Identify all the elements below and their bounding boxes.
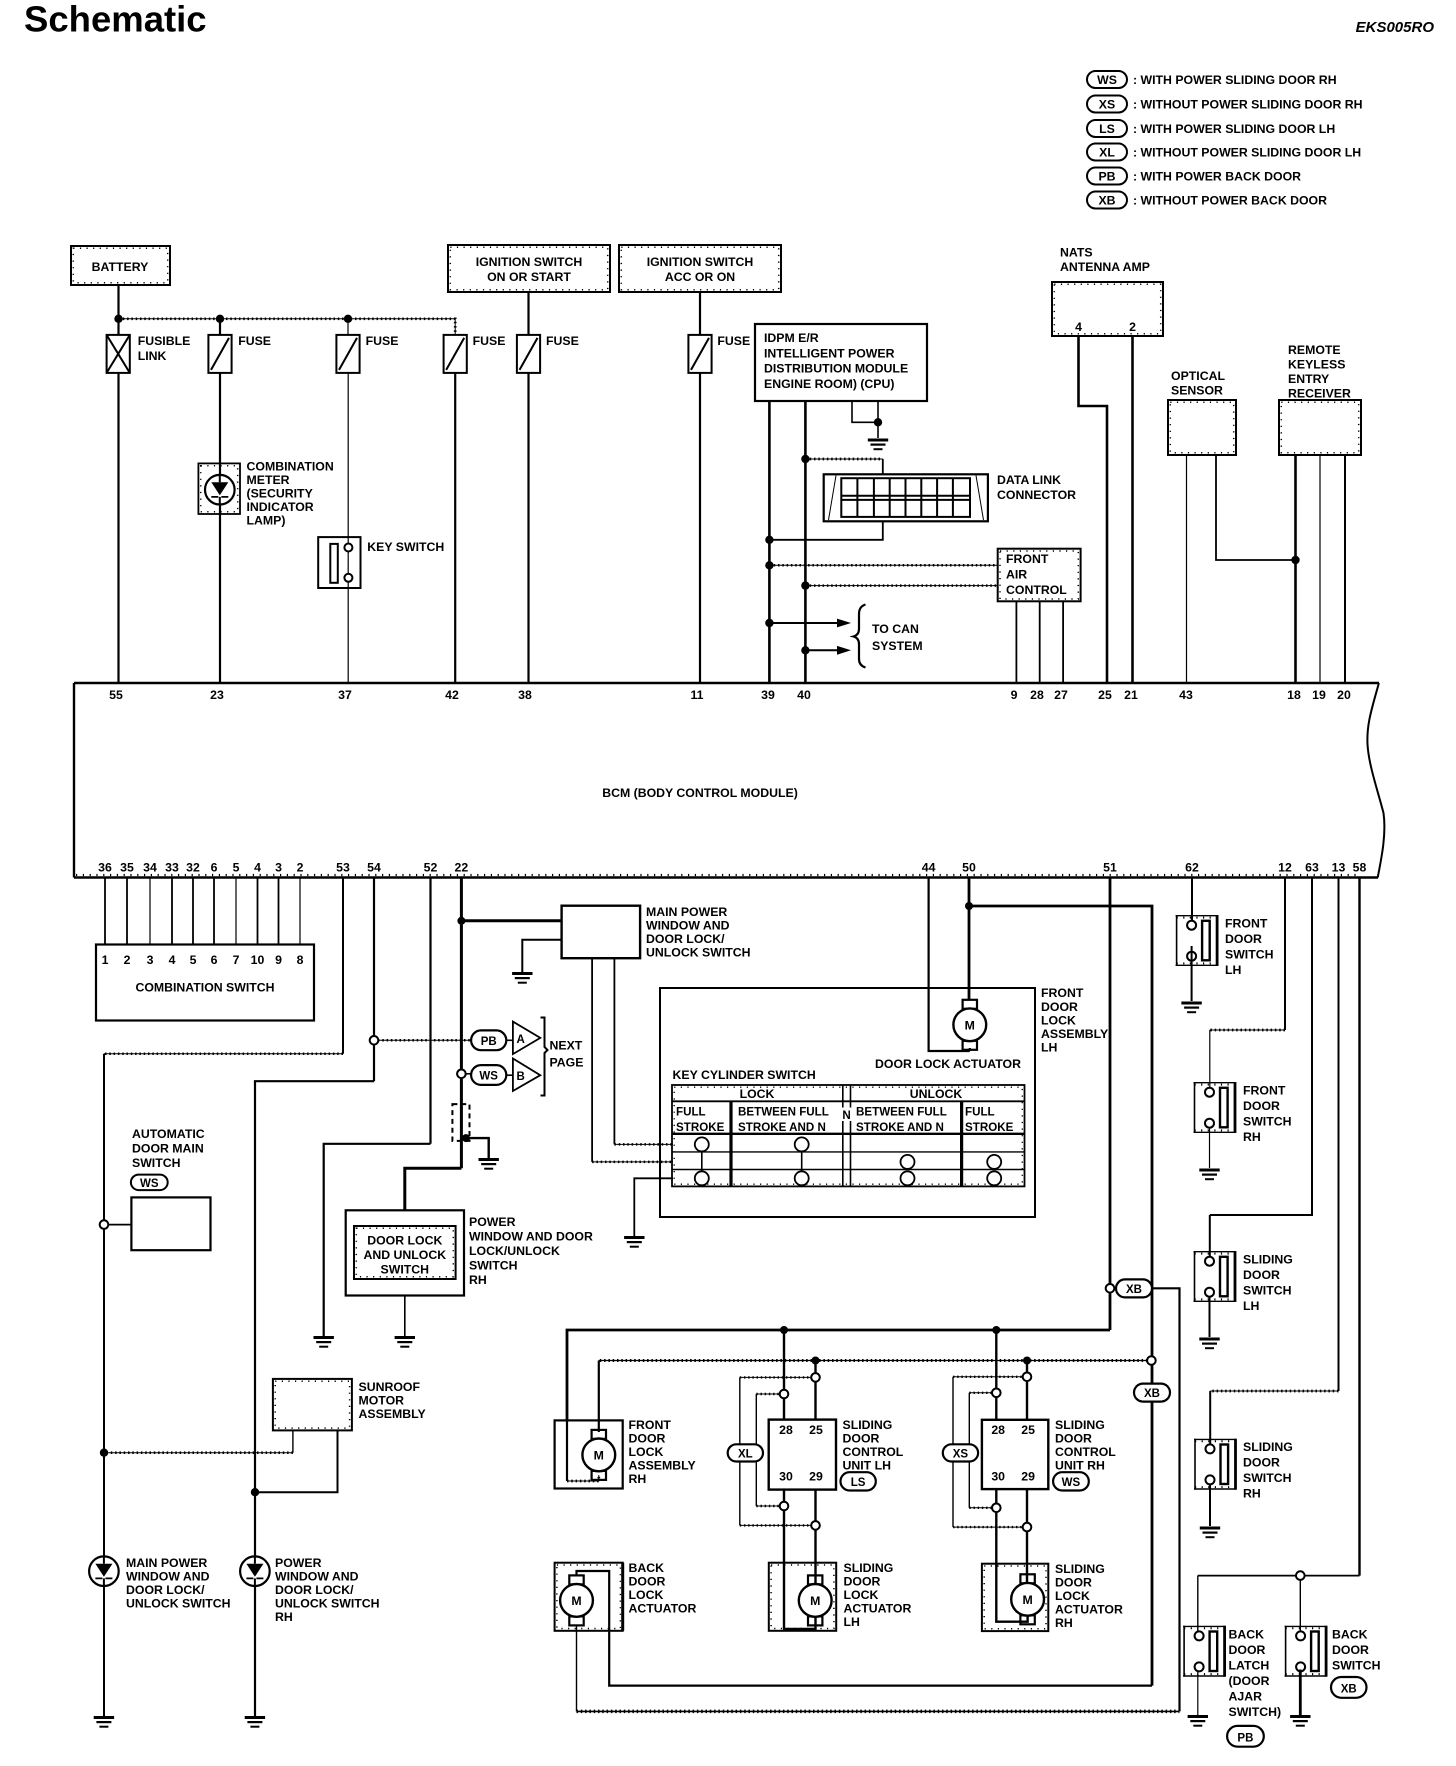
junction sunroof on wire54 [251, 1488, 259, 1496]
svg-text:UNLOCK SWITCH: UNLOCK SWITCH [275, 1597, 380, 1611]
svg-text:LOCK: LOCK [629, 1445, 664, 1459]
wire ign2 to fuse [699, 292, 701, 335]
ground SDS LH [1199, 1339, 1219, 1348]
svg-text:36: 36 [98, 861, 112, 875]
wire key cyl row C to ground [634, 1178, 673, 1236]
NATS antenna amp box [1052, 282, 1163, 336]
front door lock assembly RH box [555, 1420, 623, 1488]
svg-text:WINDOW AND: WINDOW AND [275, 1570, 359, 1584]
wire 22 jog to door lock switch [405, 1168, 462, 1210]
wire pin63 [1210, 878, 1312, 1216]
svg-text:11: 11 [691, 688, 704, 702]
svg-text:UNLOCK SWITCH: UNLOCK SWITCH [646, 946, 751, 960]
svg-text:: WITH POWER SLIDING DOOR RH: : WITH POWER SLIDING DOOR RH [1133, 73, 1337, 87]
svg-text:30: 30 [779, 1470, 793, 1484]
svg-text:FUSE: FUSE [546, 334, 579, 348]
svg-text:SWITCH: SWITCH [381, 1263, 430, 1277]
wire CAN arrow 2 [805, 646, 851, 655]
wire drop to SDS LH [1209, 1215, 1211, 1257]
next page bracket [541, 1018, 548, 1096]
wire inside FDLA RH to motor bottom [566, 1420, 568, 1481]
svg-text:(DOOR: (DOOR [1229, 1674, 1270, 1688]
svg-text:DOOR: DOOR [1055, 1576, 1092, 1590]
svg-text:XB: XB [1098, 194, 1115, 208]
svg-text:28: 28 [779, 1423, 793, 1437]
svg-text:SLIDING: SLIDING [843, 1418, 893, 1432]
sliding door control unit LH box [769, 1420, 836, 1490]
connector circle WS tap on wire22 [457, 1070, 466, 1079]
svg-text:4: 4 [1075, 320, 1082, 334]
svg-text:ON OR START: ON OR START [487, 270, 571, 284]
wire pin37 [347, 373, 349, 683]
front door switch RH [1194, 1082, 1236, 1133]
ground LED1 [94, 1718, 114, 1727]
wire 52 jog left to ground [324, 1144, 431, 1336]
wire pin55 [117, 373, 119, 683]
legend LS [1087, 120, 1335, 137]
svg-text:63: 63 [1305, 861, 1319, 875]
svg-text:29: 29 [809, 1470, 823, 1484]
wire back door latch to ground [1197, 1671, 1199, 1715]
ground back door latch [1188, 1717, 1208, 1726]
svg-text:STROKE AND N: STROKE AND N [738, 1121, 826, 1134]
wire pin12 jog (dotted) [1210, 1029, 1285, 1031]
wire pin62 [1191, 878, 1193, 922]
svg-text:SYSTEM: SYSTEM [872, 639, 923, 653]
svg-text:9: 9 [275, 953, 282, 967]
combination meter security lamp LED [205, 475, 235, 505]
svg-text:ENTRY: ENTRY [1288, 372, 1329, 386]
svg-text:XL: XL [738, 1449, 753, 1461]
svg-text:ACC OR ON: ACC OR ON [665, 270, 735, 284]
svg-text:WS: WS [1062, 1477, 1081, 1489]
ground wire52 [314, 1338, 334, 1347]
connector circle pin30 [780, 1502, 789, 1511]
XL bypass inner loop [756, 1394, 780, 1506]
WS oval (automatic door main switch) [131, 1175, 168, 1191]
remote keyless entry receiver box [1279, 400, 1361, 455]
junction wire22 ground tap [462, 1134, 470, 1142]
svg-text:WINDOW AND: WINDOW AND [126, 1570, 210, 1584]
svg-text:NATS: NATS [1060, 246, 1093, 260]
BCM bottom pin numbers [98, 861, 1366, 875]
svg-text:LOCK: LOCK [1055, 1589, 1090, 1603]
svg-text:OPTICAL: OPTICAL [1171, 369, 1225, 383]
svg-text:WS: WS [479, 1071, 498, 1083]
SDCU LH pin28 wire [783, 1330, 785, 1420]
svg-text:2: 2 [297, 861, 304, 875]
junction pin50 branch [965, 902, 973, 910]
key switch box [318, 537, 360, 588]
junction DLC bottom on pin39 [765, 536, 773, 544]
wire pin38 [527, 373, 529, 683]
table contacts lock between [795, 1137, 809, 1185]
wire back door actuator bottom horizontal (dotted) [577, 1710, 1180, 1712]
wire bus stub to fusible link [117, 319, 119, 335]
svg-text:DOOR MAIN: DOOR MAIN [132, 1142, 204, 1156]
junction CAN2 on pin40 [801, 646, 809, 654]
wire sunroof left link (dotted) [104, 1452, 293, 1454]
table contacts unlock between [901, 1155, 915, 1185]
svg-text:POWER: POWER [275, 1556, 322, 1570]
svg-text:12: 12 [1278, 861, 1292, 875]
svg-text:1: 1 [102, 953, 109, 967]
svg-text:DOOR: DOOR [844, 1575, 881, 1589]
svg-text:DOOR: DOOR [1229, 1643, 1266, 1657]
ground LED2 [245, 1718, 265, 1727]
svg-text:COMBINATION SWITCH: COMBINATION SWITCH [135, 981, 274, 995]
svg-text:DOOR: DOOR [629, 1575, 666, 1589]
wire FDS RH to ground [1209, 1128, 1211, 1168]
svg-text:AJAR: AJAR [1229, 1690, 1263, 1704]
svg-text:XL: XL [1099, 146, 1115, 160]
wire SDS RH to ground [1209, 1485, 1211, 1526]
SDCU RH pin29 wire [1026, 1489, 1028, 1583]
wire pin42 [454, 373, 456, 683]
svg-text:FUSIBLE: FUSIBLE [138, 334, 191, 348]
front air control box [998, 549, 1081, 602]
svg-text:DOOR: DOOR [629, 1432, 666, 1446]
svg-text:35: 35 [120, 861, 134, 875]
svg-text:38: 38 [518, 688, 532, 702]
dashed shield box on wire22 [452, 1104, 469, 1141]
svg-text:FULL: FULL [965, 1106, 995, 1119]
combination switch box [96, 945, 314, 1021]
wire bus stub to fuse 37 [347, 319, 349, 335]
svg-text:RH: RH [1243, 1487, 1261, 1501]
svg-text:POWER: POWER [469, 1215, 516, 1229]
svg-text:52: 52 [424, 861, 438, 875]
svg-text:BATTERY: BATTERY [92, 260, 149, 274]
svg-text:INDICATOR: INDICATOR [247, 500, 314, 514]
SDCU RH pin25 wire [1026, 1361, 1028, 1420]
svg-text:DOOR: DOOR [1055, 1432, 1092, 1446]
svg-text:IDPM E/R: IDPM E/R [764, 331, 819, 345]
svg-text:FUSE: FUSE [366, 334, 399, 348]
fusible link [107, 335, 130, 373]
legend XL [1087, 144, 1361, 161]
wire main power switch pin left to key cyl row B [591, 958, 593, 1162]
svg-text:B: B [517, 1071, 525, 1083]
wire pin52 down [429, 878, 431, 1144]
front door lock assembly LH box [660, 988, 1035, 1217]
svg-text:SENSOR: SENSOR [1171, 384, 1223, 398]
wire CAN arrow 1 [769, 619, 851, 628]
svg-text:FRONT: FRONT [1041, 986, 1084, 1000]
svg-text:13: 13 [1332, 861, 1346, 875]
svg-text:TO CAN: TO CAN [872, 622, 919, 636]
fuse (pin 37) [336, 335, 359, 373]
svg-text:: WITH POWER BACK DOOR: : WITH POWER BACK DOOR [1133, 170, 1301, 184]
sliding door lock actuator RH box [982, 1564, 1048, 1631]
wire pin44 [929, 878, 970, 1052]
wire battery to bus [117, 285, 119, 319]
svg-text:INTELLIGENT POWER: INTELLIGENT POWER [764, 346, 895, 360]
wire back door switch drop [1299, 1580, 1301, 1632]
wire circle to ADMS box [108, 1224, 131, 1226]
svg-text:LAMP): LAMP) [247, 514, 286, 528]
wire FAC pin 28 [1039, 601, 1041, 683]
svg-text:AIR: AIR [1006, 568, 1027, 582]
legend WS [1087, 71, 1337, 88]
svg-text:ACTUATOR: ACTUATOR [1055, 1603, 1123, 1617]
wire drop to SDS RH [1209, 1391, 1211, 1445]
svg-text:LOCK: LOCK [844, 1588, 879, 1602]
wire pin58 [1358, 878, 1360, 1576]
junction bus2 SDCU LH [812, 1357, 820, 1365]
svg-text:UNLOCK SWITCH: UNLOCK SWITCH [126, 1597, 231, 1611]
svg-text:FUSE: FUSE [717, 334, 750, 348]
svg-text:: WITHOUT POWER SLIDING DOOR R: : WITHOUT POWER SLIDING DOOR RH [1133, 98, 1363, 112]
svg-text:50: 50 [962, 861, 976, 875]
actuator bus 1 (bold) [567, 1330, 1110, 1420]
LS oval [841, 1472, 876, 1490]
svg-text:37: 37 [338, 688, 352, 702]
svg-text:NEXT: NEXT [550, 1039, 583, 1053]
ground door lock switch [395, 1338, 415, 1347]
ignition switch on or start box [448, 245, 610, 292]
BCM box [74, 683, 1384, 878]
svg-text:WS: WS [1097, 73, 1117, 87]
back door latch box [1183, 1626, 1225, 1677]
svg-text:KEY CYLINDER SWITCH: KEY CYLINDER SWITCH [673, 1068, 816, 1082]
wires BCM pins 36..2 to combination switch [105, 878, 300, 945]
sliding door control unit RH box [982, 1420, 1048, 1489]
svg-text:DOOR: DOOR [843, 1432, 880, 1446]
wire optical to pin18 node [1216, 455, 1296, 560]
svg-text:ENGINE ROOM) (CPU): ENGINE ROOM) (CPU) [764, 377, 894, 391]
svg-text:DOOR: DOOR [1332, 1643, 1369, 1657]
ground FDS RH [1199, 1170, 1219, 1179]
svg-text:: WITHOUT POWER BACK DOOR: : WITHOUT POWER BACK DOOR [1133, 194, 1327, 208]
wire bus2 drop to FDLA RH motor [598, 1361, 600, 1433]
svg-text:KEYLESS: KEYLESS [1288, 358, 1345, 372]
connector circle on wire54 (PB tap) [370, 1036, 379, 1045]
svg-text:RH: RH [469, 1273, 487, 1287]
actuator bus 2 (dotted) [599, 1360, 1148, 1362]
svg-text:REMOTE: REMOTE [1288, 343, 1341, 357]
junction sunroof on wire53 [100, 1449, 108, 1457]
svg-text:DOOR LOCK: DOOR LOCK [367, 1234, 442, 1248]
connector circle RH pin30 [992, 1504, 1001, 1513]
wire ign1 to fuse [527, 292, 529, 335]
XS bypass outer loop [953, 1377, 1023, 1527]
junction FAC2 on pin40 [801, 581, 809, 589]
svg-text:(SECURITY: (SECURITY [247, 487, 313, 501]
ground main power switch [512, 974, 532, 983]
svg-text:DISTRIBUTION MODULE: DISTRIBUTION MODULE [764, 362, 908, 376]
ground SDS RH [1200, 1528, 1220, 1537]
wire WS tap link [465, 1073, 471, 1075]
connector circle RH pin29 [1023, 1523, 1032, 1532]
wire bus stub to fuse 23 [219, 319, 221, 335]
legend XB [1087, 192, 1327, 209]
PB oval (next page A) [471, 1030, 506, 1050]
sliding door switch LH [1194, 1251, 1236, 1302]
svg-text:7: 7 [233, 953, 240, 967]
junction FAC1 on pin39 [765, 561, 773, 569]
wire 54 LED to ground [254, 1492, 256, 1716]
wire RKE pin 19 [1319, 455, 1321, 683]
wire pin13 [1338, 878, 1340, 1392]
wire SDS LH to ground [1209, 1297, 1211, 1337]
svg-text:CONTROL: CONTROL [1006, 583, 1067, 597]
svg-text:FRONT: FRONT [1006, 552, 1049, 566]
fuse (pin 23) [208, 335, 231, 373]
wire FAC pin 9 [1015, 601, 1017, 683]
svg-text:SLIDING: SLIDING [1243, 1440, 1293, 1454]
svg-text:AND UNLOCK: AND UNLOCK [363, 1248, 446, 1262]
svg-text:SLIDING: SLIDING [1243, 1253, 1293, 1267]
wire door lock switch to ground [404, 1296, 406, 1337]
svg-text:N: N [842, 1109, 850, 1122]
svg-text:SWITCH: SWITCH [1225, 948, 1274, 962]
svg-text:LOCK: LOCK [740, 1087, 775, 1101]
junction battery bus 3 [344, 315, 352, 323]
triangle A [506, 1022, 540, 1055]
WS oval (SDCU RH) [1053, 1472, 1089, 1490]
svg-text:SUNROOF: SUNROOF [359, 1380, 421, 1394]
wire pin53 down [342, 878, 344, 1054]
junction bus1 SDCU LH [780, 1326, 788, 1334]
CAN brace [854, 605, 866, 668]
XB oval on riser [1134, 1384, 1170, 1402]
wire pin13 jog (dotted) [1210, 1390, 1338, 1392]
wire back door actuator top out [577, 1571, 1153, 1686]
svg-text:LINK: LINK [138, 349, 167, 363]
svg-text:COMBINATION: COMBINATION [247, 460, 334, 474]
SDCU RH pin28 wire [995, 1330, 997, 1420]
svg-text:BACK: BACK [1229, 1628, 1265, 1642]
svg-text:DOOR LOCK/: DOOR LOCK/ [646, 932, 725, 946]
XS bypass inner loop [969, 1393, 992, 1508]
svg-text:SLIDING: SLIDING [844, 1561, 894, 1575]
svg-text:BACK: BACK [1332, 1628, 1368, 1642]
svg-text:25: 25 [809, 1423, 823, 1437]
svg-text:IGNITION SWITCH: IGNITION SWITCH [476, 255, 583, 269]
svg-text:BCM (BODY CONTROL MODULE): BCM (BODY CONTROL MODULE) [602, 786, 798, 800]
wire optical pin 43 [1186, 455, 1188, 683]
main power window and door lock unlock switch box [562, 906, 641, 959]
fuse (pin 38) [517, 335, 540, 373]
svg-text:MAIN POWER: MAIN POWER [646, 905, 727, 919]
XB oval on wire 51 [1116, 1279, 1152, 1297]
svg-text:20: 20 [1337, 688, 1351, 702]
wire DLC top link [805, 458, 882, 460]
svg-text:XB: XB [1144, 1388, 1160, 1400]
ground back door switch [1290, 1717, 1310, 1726]
svg-text:DOOR LOCK/: DOOR LOCK/ [126, 1583, 205, 1597]
wire main power switch pin right to key cyl row A [613, 958, 615, 1144]
junction DLC top on pin40 [801, 455, 809, 463]
svg-text:DOOR LOCK/: DOOR LOCK/ [275, 1583, 354, 1597]
svg-text:4: 4 [169, 953, 176, 967]
triangle B [506, 1059, 540, 1092]
WS oval (next page B) [471, 1065, 506, 1085]
junction optical/RKE [1291, 556, 1299, 564]
wire XB to back door actuator riser [1152, 1288, 1180, 1711]
sliding door lock motor LH [799, 1575, 832, 1625]
svg-text:9: 9 [1011, 688, 1018, 702]
svg-text:SWITCH: SWITCH [132, 1156, 181, 1170]
svg-text:EKS005RO: EKS005RO [1356, 19, 1435, 36]
XL bypass outer loop [740, 1377, 812, 1525]
SDCU LH pin25 wire [814, 1361, 816, 1420]
wire IDPM ground jog [852, 401, 878, 422]
svg-text:25: 25 [1021, 1423, 1035, 1437]
svg-text:RECEIVER: RECEIVER [1288, 387, 1351, 401]
svg-text:28: 28 [991, 1423, 1005, 1437]
svg-text:FUSE: FUSE [473, 334, 506, 348]
legend PB [1087, 168, 1301, 185]
svg-text:PB: PB [1237, 1732, 1253, 1744]
ground IDPM [868, 440, 888, 449]
wire RKE pin 20 [1344, 455, 1346, 683]
svg-text:LH: LH [844, 1615, 861, 1629]
svg-text:RH: RH [629, 1472, 647, 1486]
svg-text:29: 29 [1021, 1470, 1035, 1484]
svg-text:AUTOMATIC: AUTOMATIC [132, 1127, 205, 1141]
svg-text:LH: LH [1041, 1041, 1058, 1055]
wire pin40 [804, 401, 807, 683]
svg-text:CONTROL: CONTROL [1055, 1445, 1116, 1459]
wire sunroof right pin [255, 1430, 338, 1492]
svg-text:FRONT: FRONT [629, 1418, 672, 1432]
svg-text:: WITH POWER SLIDING DOOR LH: : WITH POWER SLIDING DOOR LH [1133, 122, 1335, 136]
svg-text:CONNECTOR: CONNECTOR [997, 488, 1076, 502]
wire to main power window switch [461, 919, 561, 922]
svg-text:ACTUATOR: ACTUATOR [629, 1602, 697, 1616]
SDCU LH pin30 wire [784, 1490, 816, 1629]
svg-text:DATA LINK: DATA LINK [997, 473, 1061, 487]
front door lock motor RH [582, 1430, 615, 1480]
wire pin51 (bold) [1109, 878, 1112, 1331]
connector circle XB tap on wire51 [1106, 1284, 1115, 1293]
back door lock motor [560, 1575, 593, 1625]
XS oval [943, 1444, 978, 1461]
wire 54 jog left and down [255, 1081, 374, 1492]
svg-text:4: 4 [254, 861, 261, 875]
svg-text:DOOR: DOOR [1225, 932, 1262, 946]
table contacts lock full stroke [695, 1137, 709, 1185]
svg-text:IGNITION SWITCH: IGNITION SWITCH [647, 255, 754, 269]
svg-text:FRONT: FRONT [1243, 1084, 1286, 1098]
battery bus wire (dotted) [119, 319, 456, 335]
wire DLC bottom link [769, 521, 882, 540]
svg-text:STROKE AND N: STROKE AND N [856, 1121, 944, 1134]
power window RH LED [240, 1556, 270, 1586]
svg-text:SWITCH: SWITCH [1243, 1284, 1292, 1298]
svg-text:RH: RH [275, 1610, 293, 1624]
wire pin50 (bold) [968, 878, 971, 1001]
svg-text:27: 27 [1054, 688, 1068, 702]
svg-text:3: 3 [147, 953, 154, 967]
svg-text:UNIT RH: UNIT RH [1055, 1459, 1105, 1473]
svg-text:XB: XB [1126, 1284, 1142, 1296]
svg-text:BETWEEN FULL: BETWEEN FULL [856, 1106, 947, 1119]
wire NATS 4 to pin 25 [1079, 336, 1108, 683]
svg-text:SWITCH: SWITCH [1243, 1115, 1292, 1129]
BCM top pin numbers [109, 688, 1351, 702]
wire 53 LED to ground [103, 1557, 105, 1716]
back door lock actuator box right edge [621, 1563, 624, 1631]
wire front air control 2 (dotted) [805, 585, 997, 587]
svg-text:LS: LS [851, 1477, 866, 1489]
wire drop to FDS RH [1209, 1030, 1211, 1088]
connector circle pin25 [811, 1373, 820, 1382]
wire pin22 (bold) [460, 878, 463, 1169]
svg-text:DOOR LOCK ACTUATOR: DOOR LOCK ACTUATOR [875, 1057, 1021, 1071]
